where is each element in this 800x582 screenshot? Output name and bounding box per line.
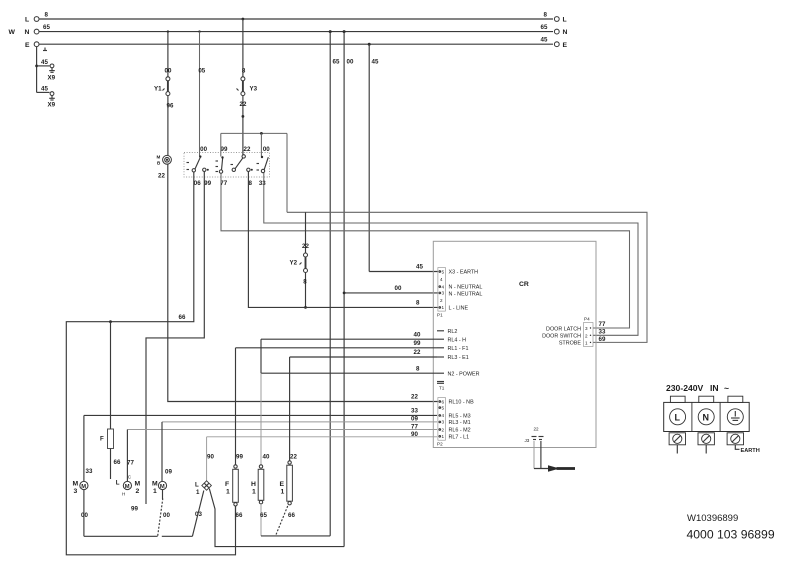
svg-text:4: 4 <box>440 277 443 282</box>
svg-text:DOOR SWITCH: DOOR SWITCH <box>542 334 581 340</box>
svg-text:00: 00 <box>347 59 354 66</box>
svg-text:M: M <box>81 484 86 490</box>
svg-text:M: M <box>73 481 79 488</box>
svg-text:Y2: Y2 <box>290 260 298 267</box>
svg-text:N: N <box>25 29 30 36</box>
svg-text:77: 77 <box>127 460 134 467</box>
svg-text:RL3 - E1: RL3 - E1 <box>448 355 469 361</box>
svg-text:77: 77 <box>599 321 606 328</box>
svg-text:33: 33 <box>411 408 418 415</box>
svg-text:L: L <box>195 482 199 489</box>
svg-text:66: 66 <box>114 459 121 466</box>
svg-text:L: L <box>116 480 120 487</box>
svg-text:STROBE: STROBE <box>559 341 582 347</box>
svg-text:L: L <box>675 413 681 423</box>
svg-text:06: 06 <box>194 180 201 187</box>
svg-text:N - NEUTRAL: N - NEUTRAL <box>449 285 483 291</box>
svg-text:45: 45 <box>541 37 548 44</box>
svg-text:90: 90 <box>207 454 214 461</box>
svg-text:M: M <box>152 481 158 488</box>
svg-text:1: 1 <box>281 489 285 496</box>
svg-text:~: ~ <box>724 383 729 393</box>
svg-text:5: 5 <box>442 405 445 410</box>
svg-text:66: 66 <box>179 314 186 321</box>
svg-text:X9: X9 <box>48 75 56 82</box>
svg-text:22: 22 <box>158 173 165 180</box>
svg-text:RL7 - L1: RL7 - L1 <box>449 434 470 440</box>
svg-text:T1: T1 <box>439 386 445 391</box>
svg-text:Y1: Y1 <box>154 86 162 93</box>
svg-text:RL4 - H: RL4 - H <box>448 337 467 343</box>
svg-text:DOOR LATCH: DOOR LATCH <box>546 327 581 333</box>
svg-text:99: 99 <box>204 180 211 187</box>
svg-text:M: M <box>135 481 141 488</box>
svg-text:2: 2 <box>136 488 140 495</box>
svg-text:90: 90 <box>411 431 418 438</box>
svg-text:P1: P1 <box>437 313 443 318</box>
svg-text:4000 103 96899: 4000 103 96899 <box>687 527 775 541</box>
svg-text:00: 00 <box>200 146 207 153</box>
svg-text:H: H <box>122 492 125 497</box>
svg-text:45: 45 <box>41 59 48 66</box>
svg-text:22: 22 <box>244 146 251 153</box>
svg-text:3: 3 <box>585 326 588 331</box>
svg-text:65: 65 <box>43 24 50 31</box>
svg-text:99: 99 <box>131 506 138 513</box>
svg-text:W10396899: W10396899 <box>687 513 738 524</box>
svg-text:2: 2 <box>585 333 588 338</box>
svg-text:IN: IN <box>710 383 719 393</box>
svg-text:1: 1 <box>252 489 256 496</box>
svg-text:65: 65 <box>333 59 340 66</box>
svg-text:45: 45 <box>372 59 379 66</box>
svg-text:99: 99 <box>236 454 243 461</box>
svg-text:09: 09 <box>165 469 172 476</box>
svg-text:22: 22 <box>534 427 540 432</box>
svg-text:X9: X9 <box>48 102 56 109</box>
svg-text:05: 05 <box>198 68 205 75</box>
svg-text:M: M <box>125 484 130 490</box>
svg-text:66: 66 <box>288 512 295 519</box>
svg-text:99: 99 <box>414 340 421 347</box>
svg-text:45: 45 <box>41 85 48 92</box>
svg-text:8: 8 <box>416 300 420 307</box>
svg-text:4: 4 <box>442 413 445 418</box>
svg-text:M: M <box>157 155 161 160</box>
svg-text:00: 00 <box>81 512 88 519</box>
svg-text:N2 - POWER: N2 - POWER <box>448 371 480 377</box>
svg-text:X3 - EARTH: X3 - EARTH <box>449 270 479 276</box>
svg-text:P2: P2 <box>437 442 443 447</box>
svg-text:40: 40 <box>263 454 270 461</box>
svg-text:H: H <box>251 481 256 488</box>
svg-text:L: L <box>563 17 567 24</box>
svg-text:00: 00 <box>263 146 270 153</box>
svg-text:1: 1 <box>153 488 157 495</box>
svg-text:E: E <box>25 42 30 49</box>
svg-text:3: 3 <box>74 488 78 495</box>
svg-text:8: 8 <box>544 12 548 19</box>
svg-text:1: 1 <box>226 489 230 496</box>
svg-text:N - NEUTRAL: N - NEUTRAL <box>449 291 483 297</box>
svg-text:RL6 - M2: RL6 - M2 <box>449 428 471 434</box>
svg-text:66: 66 <box>236 512 243 519</box>
svg-text:33: 33 <box>259 180 266 187</box>
svg-text:22: 22 <box>302 243 309 250</box>
svg-text:L: L <box>25 17 29 24</box>
svg-text:2: 2 <box>440 298 443 303</box>
svg-text:1: 1 <box>442 434 445 439</box>
svg-text:3: 3 <box>442 291 445 296</box>
svg-text:N: N <box>703 413 710 423</box>
svg-text:1: 1 <box>585 340 588 345</box>
svg-text:77: 77 <box>411 423 418 430</box>
svg-text:Y3: Y3 <box>250 86 258 93</box>
svg-text:00: 00 <box>165 68 172 75</box>
svg-text:09: 09 <box>411 416 418 423</box>
svg-text:RL3 - M1: RL3 - M1 <box>449 420 471 426</box>
svg-text:1: 1 <box>442 305 445 310</box>
svg-text:5: 5 <box>442 269 445 274</box>
svg-text:8: 8 <box>45 12 49 19</box>
svg-text:F: F <box>225 481 229 488</box>
svg-text:CR: CR <box>519 281 529 288</box>
svg-text:230-240V: 230-240V <box>666 383 704 393</box>
svg-text:4: 4 <box>442 284 445 289</box>
svg-text:M: M <box>160 484 165 490</box>
svg-text:RL10 - NB: RL10 - NB <box>449 400 475 406</box>
svg-text:8: 8 <box>416 365 420 372</box>
svg-text:3: 3 <box>442 420 445 425</box>
svg-text:22: 22 <box>290 454 297 461</box>
svg-text:E: E <box>563 42 568 49</box>
svg-text:J3: J3 <box>525 438 530 443</box>
svg-text:EARTH: EARTH <box>741 448 760 454</box>
svg-text:22: 22 <box>411 394 418 401</box>
svg-text:69: 69 <box>599 336 606 343</box>
svg-text:33: 33 <box>599 328 606 335</box>
svg-text:1: 1 <box>196 489 200 496</box>
svg-text:65: 65 <box>541 24 548 31</box>
svg-text:F: F <box>100 436 104 443</box>
svg-text:40: 40 <box>414 331 421 338</box>
svg-text:6: 6 <box>442 399 445 404</box>
svg-text:22: 22 <box>414 349 421 356</box>
svg-text:RL1 - F1: RL1 - F1 <box>448 346 469 352</box>
svg-text:L - LINE: L - LINE <box>449 306 469 312</box>
svg-text:W: W <box>9 29 16 36</box>
svg-text:P4: P4 <box>584 317 590 322</box>
svg-text:45: 45 <box>416 264 423 271</box>
svg-text:00: 00 <box>395 285 402 292</box>
svg-text:RL5 - M3: RL5 - M3 <box>449 414 471 420</box>
svg-text:65: 65 <box>260 512 267 519</box>
svg-text:99: 99 <box>221 146 228 153</box>
svg-text:33: 33 <box>86 468 93 475</box>
svg-text:2: 2 <box>442 427 445 432</box>
svg-text:8: 8 <box>248 180 252 187</box>
svg-text:E: E <box>280 481 285 488</box>
svg-text:00: 00 <box>163 512 170 519</box>
svg-text:N: N <box>563 29 568 36</box>
svg-text:8: 8 <box>242 68 246 75</box>
svg-text:RL2: RL2 <box>448 329 458 335</box>
svg-text:8: 8 <box>303 279 307 286</box>
